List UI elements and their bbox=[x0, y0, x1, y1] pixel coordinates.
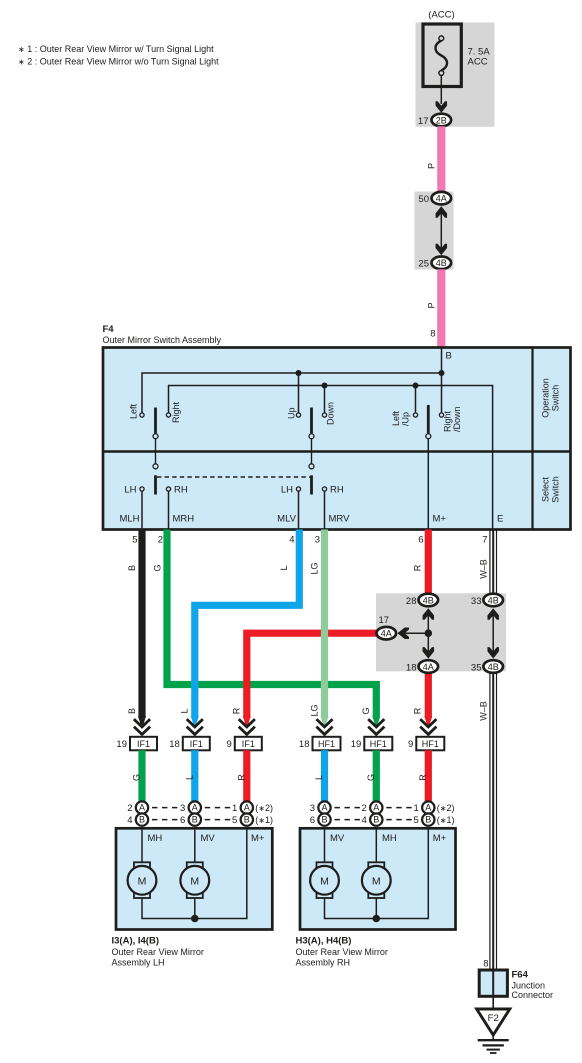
dashes A row left bbox=[152, 807, 180, 809]
terminal B (4) bbox=[136, 813, 148, 825]
svg-text:MLV: MLV bbox=[277, 514, 296, 525]
junction dot RH bus bbox=[373, 915, 381, 923]
contact Right bbox=[166, 413, 170, 417]
svg-text:LG: LG bbox=[310, 704, 320, 716]
dashed gang link bbox=[157, 476, 310, 478]
wire R below 9 HF1 bbox=[425, 750, 432, 802]
svg-text:9: 9 bbox=[408, 739, 413, 750]
pivot link 2 bbox=[311, 439, 313, 464]
wire MRV internal bbox=[324, 491, 326, 529]
svg-text:2: 2 bbox=[362, 803, 367, 814]
svg-text:18: 18 bbox=[299, 739, 310, 750]
svg-text:P: P bbox=[427, 163, 437, 169]
wire R below 9 IF1 bbox=[243, 750, 250, 802]
svg-text:G: G bbox=[153, 564, 163, 571]
wire G below 19 IF1 bbox=[138, 750, 145, 802]
svg-text:Junction: Junction bbox=[512, 980, 546, 990]
wire R red below 18-4A bbox=[425, 673, 432, 718]
mirror assembly RH body bbox=[300, 828, 456, 929]
wire L blue MLV to 18 IF1 bbox=[195, 530, 299, 718]
svg-text:W–B: W–B bbox=[478, 701, 488, 721]
svg-text:∗ 1 : Outer Rear View Mirror w: ∗ 1 : Outer Rear View Mirror w/ Turn Sig… bbox=[18, 44, 214, 54]
mirror assembly LH body bbox=[116, 828, 272, 929]
svg-text:33: 33 bbox=[471, 596, 482, 607]
svg-text:A: A bbox=[321, 803, 327, 813]
svg-text:1: 1 bbox=[232, 803, 237, 814]
svg-text:4A: 4A bbox=[436, 194, 447, 204]
link 33 to 35 bbox=[492, 609, 494, 658]
svg-text:B: B bbox=[373, 815, 379, 825]
svg-text:H3(A), H4(B): H3(A), H4(B) bbox=[296, 936, 352, 947]
dashes B row left bbox=[152, 819, 180, 821]
arrow tip LG wire bbox=[320, 716, 328, 729]
svg-text:L: L bbox=[279, 565, 289, 570]
select contact LH2 bbox=[296, 487, 300, 491]
svg-text:5: 5 bbox=[132, 535, 137, 546]
svg-text:R: R bbox=[413, 707, 423, 714]
svg-text:LH: LH bbox=[124, 485, 136, 496]
svg-text:IF1: IF1 bbox=[137, 739, 150, 749]
svg-text:4B: 4B bbox=[436, 258, 447, 268]
svg-text:17: 17 bbox=[418, 116, 429, 127]
terminal A (3) right bbox=[318, 801, 330, 813]
select contact RH1 bbox=[166, 487, 170, 491]
svg-text:/Up: /Up bbox=[401, 412, 411, 426]
svg-text:(∗1): (∗1) bbox=[437, 815, 455, 825]
connector 4B (25) bbox=[432, 257, 452, 270]
wire W-B triple upper segment bbox=[490, 530, 497, 594]
svg-text:19: 19 bbox=[116, 739, 127, 750]
svg-text:5: 5 bbox=[414, 815, 419, 826]
junction dot branch bbox=[425, 629, 433, 637]
pivot link 1 bbox=[155, 439, 157, 464]
svg-text:RH: RH bbox=[330, 485, 344, 496]
svg-text:4B: 4B bbox=[488, 595, 499, 605]
svg-text:(∗2): (∗2) bbox=[437, 803, 455, 813]
wire motor2 bottom bbox=[194, 898, 196, 919]
svg-text:HF1: HF1 bbox=[318, 739, 335, 749]
connector IF1 (18) bbox=[183, 737, 210, 751]
wire MH to motor bbox=[375, 828, 377, 863]
wire B vertical bbox=[441, 348, 443, 413]
terminal B (5) bbox=[241, 813, 253, 825]
connector HF1 (9) bbox=[416, 737, 444, 751]
svg-text:4A: 4A bbox=[381, 629, 392, 639]
terminal A (3) bbox=[189, 801, 201, 813]
fuse element bbox=[435, 41, 447, 71]
terminal B (4) right bbox=[370, 813, 382, 825]
wire M+ internal bbox=[427, 439, 429, 530]
svg-text:L: L bbox=[180, 708, 190, 713]
svg-text:3: 3 bbox=[180, 803, 185, 814]
wire P pink 4B to F4 pin 8 bbox=[437, 269, 445, 347]
arrow tip G wire bbox=[372, 716, 380, 729]
arrow tip L wire bbox=[191, 716, 199, 729]
svg-text:Assembly LH: Assembly LH bbox=[112, 958, 165, 968]
svg-text:17: 17 bbox=[379, 615, 390, 626]
dashes B row right bbox=[335, 819, 363, 821]
arrow tip B wire bbox=[138, 716, 146, 729]
svg-text:B: B bbox=[244, 815, 250, 825]
pivot circle 1b bbox=[153, 464, 158, 469]
svg-text:R: R bbox=[237, 774, 247, 781]
bus wire 2 bbox=[169, 386, 493, 530]
svg-text:Right: Right bbox=[443, 410, 453, 432]
connector 4B (28) bbox=[419, 594, 439, 607]
svg-text:(∗2): (∗2) bbox=[255, 803, 273, 813]
svg-text:E: E bbox=[497, 514, 503, 525]
contact Up bbox=[296, 413, 300, 417]
connector HF1 (19) bbox=[364, 737, 392, 751]
wire G below 19 HF1 bbox=[373, 750, 380, 802]
bus wire 1 bbox=[142, 373, 442, 413]
svg-text:Connector: Connector bbox=[512, 990, 554, 1000]
svg-text:8: 8 bbox=[430, 329, 435, 340]
svg-text:MLH: MLH bbox=[119, 514, 139, 525]
pole bar 3 bbox=[427, 405, 430, 433]
svg-text:G: G bbox=[361, 707, 371, 714]
svg-text:A: A bbox=[139, 803, 145, 813]
svg-text:Left: Left bbox=[129, 403, 139, 419]
svg-text:IF1: IF1 bbox=[190, 739, 203, 749]
svg-text:A: A bbox=[373, 803, 379, 813]
svg-text:50: 50 bbox=[418, 194, 429, 205]
connector IF1 (19) bbox=[130, 737, 157, 751]
fuse terminal top bbox=[439, 36, 444, 41]
svg-text:M+: M+ bbox=[251, 833, 265, 844]
motor M LH-2 bbox=[180, 862, 209, 898]
svg-text:L: L bbox=[314, 775, 324, 780]
svg-text:LG: LG bbox=[310, 562, 320, 574]
wire MLH internal bbox=[141, 491, 143, 529]
section divider bbox=[103, 450, 571, 452]
wire L below 18 HF1 bbox=[321, 750, 328, 802]
wire MLV internal bbox=[298, 491, 300, 529]
svg-text:Outer Rear View Mirror: Outer Rear View Mirror bbox=[296, 947, 388, 957]
connector 4A (17) bbox=[377, 627, 397, 640]
pivot circle 3a bbox=[426, 434, 431, 439]
svg-text:MRV: MRV bbox=[329, 514, 351, 525]
junction dot up bbox=[296, 370, 302, 376]
connector 2B bbox=[432, 114, 452, 127]
junction connector F64 bbox=[479, 970, 507, 996]
svg-text:G: G bbox=[132, 774, 142, 781]
svg-text:LH: LH bbox=[281, 485, 293, 496]
svg-text:B: B bbox=[446, 351, 452, 362]
svg-text:19: 19 bbox=[351, 739, 362, 750]
link wire 4A to 4B bbox=[440, 208, 442, 253]
svg-text:P: P bbox=[427, 302, 437, 308]
select contact LH1 bbox=[140, 487, 144, 491]
switch assembly F4 body bbox=[103, 348, 571, 530]
svg-text:Outer Mirror Switch Assembly: Outer Mirror Switch Assembly bbox=[103, 335, 222, 345]
wire P pink 2B to 4A bbox=[437, 126, 445, 191]
branch wire to 17 bbox=[398, 632, 428, 634]
svg-text:6: 6 bbox=[418, 535, 423, 546]
arrow down to 4B bbox=[436, 244, 448, 256]
svg-text:M: M bbox=[372, 875, 381, 887]
svg-text:Operation: Operation bbox=[541, 378, 551, 418]
connector 4A (50) bbox=[432, 192, 452, 205]
wire G green MRH to HF1 bbox=[167, 530, 376, 718]
wire M+ internal bbox=[142, 828, 247, 918]
terminal B (6) bbox=[189, 813, 201, 825]
wire through F64 bbox=[492, 970, 494, 996]
pivot circle 2a bbox=[309, 434, 314, 439]
power block background bbox=[416, 23, 495, 127]
svg-text:B: B bbox=[192, 815, 198, 825]
svg-text:RH: RH bbox=[174, 485, 188, 496]
contact Right/Down bbox=[439, 413, 443, 417]
svg-text:R: R bbox=[418, 774, 428, 781]
wire M+ internal right bbox=[325, 828, 429, 918]
svg-text:Up: Up bbox=[287, 407, 297, 419]
svg-text:7: 7 bbox=[482, 535, 487, 546]
pivot circle 1a bbox=[153, 434, 158, 439]
svg-text:18: 18 bbox=[169, 739, 180, 750]
svg-text:3: 3 bbox=[310, 803, 315, 814]
arrow into 2B bbox=[436, 101, 448, 113]
wire up contact bbox=[298, 373, 300, 413]
wire MRH internal bbox=[168, 491, 170, 529]
svg-text:Outer Rear View Mirror: Outer Rear View Mirror bbox=[112, 947, 204, 957]
fuse terminal bottom bbox=[439, 71, 444, 76]
svg-text:F64: F64 bbox=[512, 970, 529, 981]
svg-text:4A: 4A bbox=[423, 662, 434, 672]
arrow tip R wire left bbox=[243, 716, 251, 729]
select contact RH2 bbox=[322, 487, 326, 491]
svg-text:R: R bbox=[232, 707, 242, 714]
connector block 4A/4B background bbox=[415, 192, 454, 270]
svg-text:F4: F4 bbox=[103, 324, 115, 335]
svg-text:Left: Left bbox=[391, 410, 401, 426]
svg-text:2: 2 bbox=[127, 803, 132, 814]
svg-text:2B: 2B bbox=[436, 115, 447, 125]
ground symbol bbox=[478, 1040, 509, 1053]
connector 4B (33) bbox=[483, 594, 503, 607]
svg-text:MV: MV bbox=[330, 833, 345, 844]
svg-text:W–B: W–B bbox=[478, 559, 488, 579]
svg-text:28: 28 bbox=[406, 596, 417, 607]
link 28 to 18 bbox=[427, 609, 429, 658]
svg-text:5: 5 bbox=[232, 815, 237, 826]
svg-text:M+: M+ bbox=[433, 514, 447, 525]
terminal A (1) bbox=[241, 801, 253, 813]
wire W-B triple lower segment bbox=[490, 673, 497, 970]
wire R red M+ down bbox=[425, 530, 432, 594]
svg-text:HF1: HF1 bbox=[370, 739, 387, 749]
connector block background bbox=[376, 593, 506, 671]
contact Down bbox=[322, 413, 326, 417]
arrow down to 35 bbox=[487, 647, 499, 659]
svg-text:Select: Select bbox=[541, 476, 551, 502]
svg-text:9: 9 bbox=[227, 739, 232, 750]
wire MV to motor bbox=[194, 828, 196, 863]
svg-text:B: B bbox=[139, 815, 145, 825]
motor M RH-2 bbox=[362, 862, 391, 898]
svg-text:/Down: /Down bbox=[452, 406, 462, 432]
select pole bar 1 bbox=[154, 475, 157, 494]
wire LG MRV to 18 HF1 bbox=[321, 530, 328, 718]
arrow up to 28 bbox=[423, 608, 435, 620]
junction dot down bbox=[322, 383, 328, 389]
svg-text:L: L bbox=[185, 775, 195, 780]
svg-text:M: M bbox=[190, 875, 199, 887]
motor M RH-1 bbox=[310, 862, 339, 898]
wire R red branch to 9 IF1 bbox=[247, 633, 378, 717]
svg-text:(∗1): (∗1) bbox=[255, 815, 273, 825]
pole bar 1 bbox=[154, 408, 157, 434]
svg-text:M: M bbox=[138, 875, 147, 887]
svg-text:A: A bbox=[192, 803, 198, 813]
svg-text:A: A bbox=[425, 803, 431, 813]
svg-text:M: M bbox=[320, 875, 329, 887]
wire left-up contact bbox=[415, 386, 417, 413]
arrow up to 4A bbox=[436, 206, 448, 218]
svg-text:4: 4 bbox=[127, 815, 132, 826]
svg-text:M+: M+ bbox=[433, 833, 447, 844]
terminal A (2) bbox=[136, 801, 148, 813]
svg-text:I3(A), I4(B): I3(A), I4(B) bbox=[112, 936, 160, 947]
wire MV to motor bbox=[324, 828, 326, 863]
svg-text:MH: MH bbox=[382, 833, 397, 844]
svg-text:F2: F2 bbox=[488, 1013, 499, 1024]
junction dot B bbox=[439, 370, 445, 376]
terminal B (5) right bbox=[422, 813, 434, 825]
wire MH to motor bbox=[141, 828, 143, 863]
arrow up to 33 bbox=[487, 608, 499, 620]
svg-text:4B: 4B bbox=[488, 662, 499, 672]
svg-text:B: B bbox=[127, 708, 137, 714]
svg-text:MRH: MRH bbox=[173, 514, 195, 525]
arrow tip R wire right bbox=[424, 716, 432, 729]
svg-text:B: B bbox=[321, 815, 327, 825]
svg-text:18: 18 bbox=[406, 662, 417, 673]
contact Left bbox=[140, 413, 144, 417]
arrow down to 18 bbox=[423, 647, 435, 659]
svg-text:4: 4 bbox=[362, 815, 367, 826]
svg-text:35: 35 bbox=[471, 662, 482, 673]
connector IF1 (9) bbox=[235, 737, 262, 751]
svg-text:Switch: Switch bbox=[551, 385, 561, 412]
wire B black MLH down bbox=[138, 530, 145, 718]
svg-text:Down: Down bbox=[326, 402, 336, 425]
wire motor2 bottom right bbox=[375, 898, 377, 919]
terminal B (6) right bbox=[318, 813, 330, 825]
svg-text:HF1: HF1 bbox=[422, 739, 439, 749]
svg-text:IF1: IF1 bbox=[242, 739, 255, 749]
svg-text:25: 25 bbox=[418, 259, 429, 270]
svg-text:4: 4 bbox=[289, 535, 294, 546]
contact Left/Up bbox=[413, 413, 417, 417]
svg-text:Right: Right bbox=[171, 401, 181, 423]
svg-text:MH: MH bbox=[148, 833, 163, 844]
terminal A (2) right bbox=[370, 801, 382, 813]
svg-text:∗ 2 : Outer Rear View Mirror w: ∗ 2 : Outer Rear View Mirror w/o Turn Si… bbox=[18, 57, 219, 67]
svg-text:8: 8 bbox=[483, 959, 488, 970]
svg-text:Assembly RH: Assembly RH bbox=[296, 958, 351, 968]
connector 4A (18) bbox=[419, 660, 439, 673]
pole bar 2 bbox=[310, 408, 313, 434]
svg-text:3: 3 bbox=[315, 535, 320, 546]
junction dot LH bus bbox=[191, 915, 199, 923]
motor M LH-1 bbox=[128, 862, 157, 898]
select pole bar 2 bbox=[310, 475, 313, 494]
svg-text:2: 2 bbox=[158, 535, 163, 546]
wire triangle to ground bbox=[492, 1035, 494, 1040]
svg-text:6: 6 bbox=[310, 815, 315, 826]
svg-text:ACC: ACC bbox=[468, 57, 488, 68]
dashes A row right bbox=[335, 807, 363, 809]
label column divider bbox=[531, 348, 533, 530]
svg-text:A: A bbox=[244, 803, 250, 813]
arrow left to 17 bbox=[398, 627, 410, 639]
connector HF1 (18) bbox=[313, 737, 341, 751]
svg-text:B: B bbox=[425, 815, 431, 825]
svg-text:(ACC): (ACC) bbox=[428, 10, 454, 21]
svg-text:G: G bbox=[366, 774, 376, 781]
connector 4B (35) bbox=[483, 660, 503, 673]
pivot circle 2b bbox=[309, 464, 314, 469]
svg-text:4B: 4B bbox=[423, 595, 434, 605]
svg-text:1: 1 bbox=[414, 803, 419, 814]
svg-text:MV: MV bbox=[201, 833, 216, 844]
ground triangle F2 bbox=[477, 1009, 510, 1035]
svg-text:B: B bbox=[127, 565, 137, 571]
wire L below 18 IF1 bbox=[191, 750, 198, 802]
junction dot left-up bbox=[413, 383, 419, 389]
svg-text:R: R bbox=[413, 564, 423, 571]
terminal A (1) right bbox=[422, 801, 434, 813]
svg-text:6: 6 bbox=[180, 815, 185, 826]
wire F64 to ground bbox=[492, 996, 494, 1009]
wire fuse to connector 2B bbox=[440, 75, 442, 104]
wire down contact bbox=[324, 386, 326, 413]
svg-text:Switch: Switch bbox=[551, 476, 561, 503]
fuse F 7.5A ACC box bbox=[423, 24, 461, 87]
